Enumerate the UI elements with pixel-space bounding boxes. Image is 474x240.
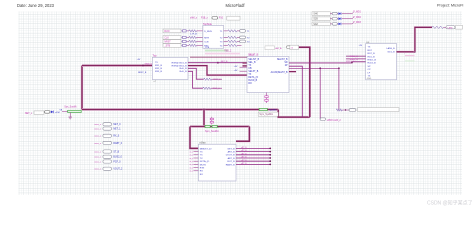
svg-text:D_RUN: D_RUN bbox=[204, 31, 212, 33]
svg-text:RXD1_B: RXD1_B bbox=[368, 60, 377, 62]
svg-text:xx_x: xx_x bbox=[189, 167, 193, 169]
junction bus to U6 bbox=[203, 109, 205, 111]
resistor R10 RST_0 bbox=[203, 87, 211, 89]
ferrite bead FB1 top-right bbox=[330, 13, 332, 15]
svg-text:Sym_SusMnt: Sym_SusMnt bbox=[205, 130, 219, 133]
svg-text:SELIST_B: SELIST_B bbox=[248, 59, 259, 61]
wire U4 thick stub bbox=[289, 70, 296, 72]
svg-text:xAJ_A: xAJ_A bbox=[275, 47, 282, 50]
value box right bbox=[456, 25, 463, 29]
svg-text:xx_x: xx_x bbox=[189, 151, 193, 153]
wire U2 pin T4 bbox=[224, 44, 228, 46]
resistor R4 _STB bbox=[187, 44, 189, 46]
svg-text:RX1_B: RX1_B bbox=[155, 65, 162, 67]
wire to ground bbox=[69, 113, 71, 117]
wire U3 RxD2 elbow bbox=[188, 71, 203, 88]
IC U4 SEL5T bbox=[247, 57, 289, 93]
svg-text:1_PL-B: 1_PL-B bbox=[190, 34, 198, 36]
junction on bus wire bbox=[142, 65, 144, 67]
net label box row3 top-right bbox=[312, 22, 330, 26]
diode D3 top-right bbox=[336, 23, 339, 25]
svg-text:RUT_B: RUT_B bbox=[227, 161, 235, 163]
svg-text:SEL5T_B: SEL5T_B bbox=[248, 54, 259, 57]
svg-text:CLK: CLK bbox=[164, 37, 169, 39]
op IC U2 TopSide bbox=[203, 26, 224, 49]
svg-text:P10: P10 bbox=[219, 18, 224, 20]
svg-text:xRT_B: xRT_B bbox=[241, 163, 247, 165]
svg-text:SH0: SH0 bbox=[313, 14, 318, 16]
svg-text:RTN: RTN bbox=[200, 168, 205, 170]
svg-text:xxxx_x: xxxx_x bbox=[94, 129, 102, 131]
connector P1 T1 bbox=[240, 30, 246, 33]
ground bbox=[68, 116, 72, 118]
diode D4 left edge bbox=[51, 111, 54, 114]
svg-text:RxD2_B: RxD2_B bbox=[368, 63, 377, 65]
resistor R7 T3 bbox=[228, 40, 237, 42]
svg-text:xx_x: xx_x bbox=[189, 155, 193, 157]
fuse F2 on bus green bbox=[259, 108, 267, 110]
net label box row2 top-right bbox=[312, 17, 330, 21]
svg-text:RO: RO bbox=[248, 83, 252, 85]
connector P7 ALJT bbox=[286, 46, 293, 49]
wire to connector T2 bbox=[237, 36, 240, 38]
svg-text:SD: SD bbox=[284, 62, 288, 64]
svg-text:TopSide: TopSide bbox=[203, 23, 213, 26]
wire to connector T3 bbox=[237, 40, 240, 42]
input label box NRST bbox=[163, 40, 181, 44]
jumper J1 bbox=[212, 17, 218, 20]
fuse F1 green bbox=[62, 110, 68, 112]
highlight band green right of U5 bbox=[405, 60, 415, 62]
U6 left pin stubs bbox=[194, 151, 199, 153]
U6 right pin wires bbox=[236, 147, 270, 149]
svg-text:SEL5T_B: SEL5T_B bbox=[248, 71, 258, 73]
junction top wire bbox=[247, 56, 249, 58]
svg-text:RXD1_B: RXD1_B bbox=[346, 61, 355, 63]
svg-text:xxxx_x: xxxx_x bbox=[94, 143, 102, 145]
svg-text:BUS2_0: BUS2_0 bbox=[113, 157, 122, 159]
svg-text:GET_B: GET_B bbox=[227, 148, 235, 150]
wire bus horizontal main bbox=[82, 108, 278, 111]
svg-text:xx_x: xx_x bbox=[189, 164, 193, 166]
svg-text:xx_x: xx_x bbox=[189, 171, 193, 173]
svg-text:ST_B: ST_B bbox=[113, 151, 119, 153]
svg-text:RXD0_B: RXD0_B bbox=[350, 56, 359, 58]
svg-text:RST_0: RST_0 bbox=[214, 79, 222, 81]
junction GD1 bbox=[414, 51, 416, 53]
junction a bbox=[319, 67, 321, 69]
svg-text:LAN5: LAN5 bbox=[448, 26, 454, 29]
value box left edge bbox=[34, 111, 44, 114]
svg-text:+3V: +3V bbox=[137, 59, 141, 61]
connector P5 LPDX bbox=[320, 118, 325, 121]
svg-text:NET_0: NET_0 bbox=[113, 124, 121, 126]
svg-text:_STB: _STB bbox=[163, 45, 170, 47]
diode D1 top-right bbox=[336, 13, 339, 15]
svg-text:CLB: CLB bbox=[204, 41, 209, 43]
wire U5 GD1_B out bbox=[397, 51, 415, 53]
svg-text:NET_x: NET_x bbox=[25, 113, 33, 115]
bead FB7 _STB bbox=[181, 44, 187, 46]
wire stub U4 pin1 bbox=[243, 62, 248, 64]
net box bus top bbox=[290, 45, 299, 49]
value box Sym_SysMnt bbox=[258, 112, 278, 116]
svg-text:xRT_B: xRT_B bbox=[241, 150, 247, 152]
wire R11 to oval bbox=[342, 109, 349, 111]
wire ALJT row bbox=[294, 46, 299, 48]
svg-text:Sym_SysMnt: Sym_SysMnt bbox=[259, 113, 273, 116]
wire U4 2P to bus bbox=[289, 66, 302, 117]
wire to connector T1 bbox=[237, 30, 240, 32]
svg-text:xxxx_x: xxxx_x bbox=[94, 124, 102, 126]
ferrite bead FB2 top-right bbox=[330, 18, 332, 20]
wire drop to LPDX row bbox=[319, 68, 321, 119]
wire drop to resistor row bbox=[338, 68, 340, 110]
IC U5 bbox=[366, 44, 397, 80]
svg-text:SWM_B: SWM_B bbox=[145, 63, 153, 65]
svg-text:P1B_x: P1B_x bbox=[201, 18, 209, 20]
svg-text:Date: June 29, 2023: Date: June 29, 2023 bbox=[17, 3, 55, 8]
value box P10 bbox=[227, 16, 240, 20]
svg-text:Project: MicroFl: Project: MicroFl bbox=[437, 4, 464, 8]
bead FB5 CLK bbox=[181, 36, 187, 38]
svg-text:GD1_B: GD1_B bbox=[387, 52, 395, 54]
svg-text:LAN5_B: LAN5_B bbox=[386, 47, 395, 50]
wire to net flag row3 bbox=[342, 23, 352, 25]
svg-text:RX3_B: RX3_B bbox=[155, 71, 162, 73]
svg-text:xx_x: xx_x bbox=[189, 161, 193, 163]
svg-text:NRST_B: NRST_B bbox=[138, 72, 147, 74]
wire bus elbow right bbox=[278, 110, 310, 118]
svg-text:_STB: _STB bbox=[203, 47, 210, 49]
svg-text:SysMnt: SysMnt bbox=[269, 108, 277, 111]
MCU U3 Top bbox=[152, 57, 188, 79]
wire U2 pin T1 bbox=[224, 30, 228, 32]
svg-text:P_MD3: P_MD3 bbox=[353, 22, 361, 24]
wire U4 to U5 RXD1 bbox=[289, 62, 366, 63]
input label box CLK bbox=[163, 36, 181, 40]
wire U6 right rail bbox=[236, 127, 249, 142]
svg-text:RXIN&TXD2_B: RXIN&TXD2_B bbox=[172, 66, 187, 68]
svg-text:SA8: SA8 bbox=[313, 23, 318, 26]
svg-text:xxxx_x: xxxx_x bbox=[94, 161, 102, 163]
svg-text:TBD_2: TBD_2 bbox=[224, 51, 232, 53]
svg-text:xxxx_x: xxxx_x bbox=[94, 151, 102, 153]
svg-text:ART_B: ART_B bbox=[228, 151, 236, 154]
svg-text:xRT_B: xRT_B bbox=[241, 160, 247, 162]
svg-text:ALUM(SEL5T_B: ALUM(SEL5T_B bbox=[271, 71, 288, 74]
svg-text:CB: CB bbox=[248, 68, 252, 70]
wire U3 RXIN2 elbow to U4 bbox=[188, 66, 247, 76]
resistor R3 NRST bbox=[187, 40, 189, 42]
connector P6 label bbox=[446, 26, 455, 29]
svg-text:NRST: NRST bbox=[164, 41, 171, 43]
svg-text:xRT_B: xRT_B bbox=[241, 147, 247, 149]
connector P2 T2 bbox=[240, 36, 246, 39]
svg-text:RETA_(O: RETA_(O bbox=[248, 76, 258, 79]
wire bus vertical right bbox=[299, 47, 310, 117]
resistor R8 T4 bbox=[228, 44, 237, 46]
wire net RXD1_B to U5 bbox=[346, 58, 366, 60]
svg-text:RXIN&TXD1_B: RXIN&TXD1_B bbox=[172, 63, 187, 65]
wire _STB to U2 bbox=[197, 44, 203, 46]
svg-text:TX: TX bbox=[248, 65, 251, 67]
svg-text:NET_1: NET_1 bbox=[113, 129, 121, 131]
resistor R12 bbox=[432, 26, 444, 28]
svg-text:SELIST_B: SELIST_B bbox=[277, 59, 288, 61]
diode D2 top-right bbox=[336, 18, 339, 20]
fuse F3b green near U6 bbox=[212, 125, 217, 127]
svg-text:RUN: RUN bbox=[164, 31, 169, 33]
svg-text:xPM: xPM bbox=[55, 112, 60, 114]
svg-text:RAMT_B: RAMT_B bbox=[226, 163, 235, 166]
wire U2 pin T2 bbox=[224, 36, 228, 38]
wire GD1 riser bbox=[415, 27, 432, 52]
crystal Y2 above U6 bbox=[211, 117, 213, 125]
bead FB8 left edge bbox=[45, 111, 51, 114]
highlight band pink right of U5 bbox=[405, 55, 415, 57]
wire net RXD0_B to U5 bbox=[346, 55, 366, 57]
svg-text:RST_B: RST_B bbox=[368, 53, 376, 55]
svg-text:RxD_B: RxD_B bbox=[180, 71, 187, 73]
junction U5 entry bbox=[351, 62, 353, 64]
junction R11 row bbox=[345, 109, 346, 110]
svg-text:P_MD1: P_MD1 bbox=[353, 12, 361, 14]
junction stub bbox=[217, 62, 219, 64]
wire RUN to U2 bbox=[197, 30, 203, 32]
wire bus to U3 pin bbox=[82, 64, 152, 67]
wire bus vertical left bbox=[81, 66, 84, 110]
wire to net flag row1 bbox=[342, 13, 352, 15]
connector P4 bbox=[349, 109, 356, 112]
svg-text:DOUT_B: DOUT_B bbox=[226, 155, 235, 157]
svg-text:CSDN @知乎某点了: CSDN @知乎某点了 bbox=[427, 200, 473, 207]
svg-text:RO: RO bbox=[200, 171, 204, 173]
wire horizontal to U6 pins bbox=[190, 125, 249, 128]
highlight band green below U2 bbox=[205, 50, 228, 52]
resistor R9 RST_0 bbox=[204, 78, 212, 80]
svg-text:MCHJ: MCHJ bbox=[200, 164, 206, 166]
connector P3 T3 bbox=[240, 40, 246, 43]
svg-text:TX: TX bbox=[248, 74, 251, 76]
bead FB6 NRST bbox=[181, 40, 187, 42]
grid background bbox=[19, 12, 463, 196]
wire CLK to U2 bbox=[197, 36, 203, 38]
svg-text:RX_0: RX_0 bbox=[113, 136, 119, 138]
svg-text:xxxx_x: xxxx_x bbox=[94, 157, 102, 159]
wire T4 stub bbox=[237, 44, 242, 46]
svg-text:x: x bbox=[218, 127, 219, 129]
svg-text:MTR: MTR bbox=[204, 37, 209, 39]
input label box RUN bbox=[163, 29, 181, 33]
value box long row bbox=[358, 108, 400, 112]
net label box row1 top-right bbox=[312, 12, 330, 16]
svg-text:mXan: mXan bbox=[200, 143, 207, 145]
svg-text:LPDX ALIF_2: LPDX ALIF_2 bbox=[327, 119, 342, 122]
fuse F3a green near U6 bbox=[205, 125, 210, 127]
svg-text:PCF_0: PCF_0 bbox=[113, 161, 121, 163]
svg-text:GND: GND bbox=[367, 78, 372, 80]
wire U2 pin T3 bbox=[224, 40, 228, 42]
svg-text:xAM_x: xAM_x bbox=[190, 17, 198, 20]
resistor R5 T1 bbox=[228, 30, 237, 32]
input label box _STB bbox=[163, 44, 181, 48]
wire U3 RxD1 elbow bbox=[188, 68, 204, 79]
svg-text:MMUST_(O: MMUST_(O bbox=[200, 148, 212, 150]
IC U6 bbox=[198, 144, 236, 181]
highlight band pink below U2 bbox=[205, 53, 240, 55]
svg-text:HD1_B: HD1_B bbox=[368, 56, 376, 58]
wire U4 SD stubline bbox=[289, 67, 339, 69]
svg-text:RX2_B: RX2_B bbox=[155, 68, 162, 70]
svg-text:NCTA_(O: NCTA_(O bbox=[200, 160, 210, 163]
wire U6 left rail bbox=[190, 127, 198, 149]
svg-text:RxKD_B: RxKD_B bbox=[248, 80, 257, 82]
crystal Y1 under U4 bbox=[266, 93, 268, 104]
svg-text:CP: CP bbox=[368, 69, 372, 71]
svg-text:Sys_SusMt: Sys_SusMt bbox=[64, 105, 76, 108]
wire R9 to U4 bbox=[212, 78, 222, 80]
svg-text:xRT_B: xRT_B bbox=[241, 153, 247, 155]
svg-text:SEL_B: SEL_B bbox=[248, 62, 256, 64]
wire stub U4 pin2 bbox=[243, 65, 248, 67]
resistor R2 CLK bbox=[187, 36, 189, 38]
svg-text:xxxx_x: xxxx_x bbox=[94, 169, 102, 171]
wire R10 to U4 bbox=[211, 87, 222, 89]
svg-text:Top: Top bbox=[153, 55, 158, 58]
resistor R6 T2 bbox=[228, 36, 237, 38]
svg-text:VOUT_2: VOUT_2 bbox=[113, 169, 123, 171]
svg-text:MicroFladf: MicroFladf bbox=[225, 3, 245, 8]
svg-text:RST: RST bbox=[368, 50, 373, 52]
svg-text:S1B: S1B bbox=[313, 19, 318, 21]
svg-text:xxxx_x: xxxx_x bbox=[94, 136, 102, 138]
wire U3 top to U4 top bbox=[190, 56, 259, 58]
wire U3 RXIN1 to U4 bbox=[188, 62, 247, 64]
svg-text:RABT_0: RABT_0 bbox=[113, 142, 122, 145]
wire to net flag row2 bbox=[342, 18, 352, 20]
junction b bbox=[338, 67, 340, 69]
svg-text:xRT_B: xRT_B bbox=[241, 157, 247, 159]
svg-text:ART_B: ART_B bbox=[228, 157, 236, 160]
svg-text:RST_0: RST_0 bbox=[213, 88, 221, 90]
svg-text:RO: RO bbox=[200, 174, 204, 176]
svg-text:2P: 2P bbox=[285, 65, 288, 67]
resistor R1 RUN bbox=[187, 30, 189, 32]
svg-text:RxD_B: RxD_B bbox=[180, 68, 187, 70]
svg-text:xx_x: xx_x bbox=[189, 158, 193, 160]
ferrite bead FB3 top-right bbox=[330, 23, 332, 25]
value box ALJT bbox=[265, 46, 275, 50]
resistor R11 row bbox=[336, 109, 342, 111]
wire R12 to label bbox=[444, 26, 447, 28]
wire bus drop to U6 bbox=[203, 110, 206, 127]
wire NRST to U2 bbox=[197, 40, 203, 42]
bead FB4 RUN bbox=[181, 30, 187, 32]
svg-text:P_MD2: P_MD2 bbox=[353, 17, 361, 19]
